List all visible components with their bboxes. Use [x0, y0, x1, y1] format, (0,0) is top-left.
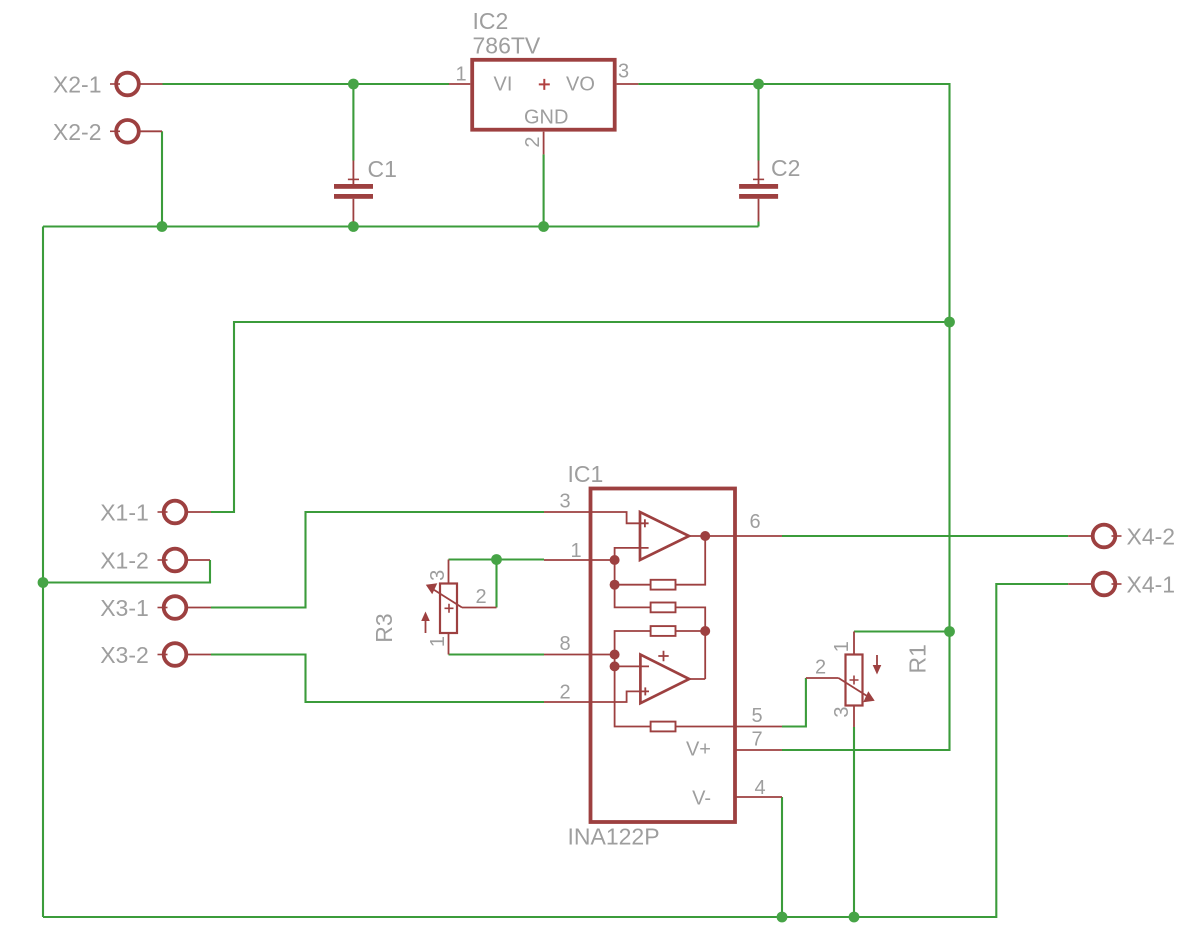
wire IC1 pin1 inner — [591, 560, 615, 585]
resistor Rg1 — [651, 603, 676, 613]
junction R1 pin1 at V+ vertical — [944, 626, 955, 637]
R1 wiper arrowhead — [863, 691, 875, 702]
svg-text:7: 7 — [751, 729, 762, 751]
wire Rfb1 to A1 output — [676, 536, 706, 585]
svg-text:1: 1 — [831, 641, 853, 652]
wire X3-1 to IC1 pin3 — [211, 512, 544, 608]
IC2 pin 2 stub — [543, 132, 545, 155]
svg-text:3: 3 — [618, 60, 629, 82]
wire C2 top branch — [757, 84, 759, 161]
svg-text:8: 8 — [559, 633, 570, 655]
wire left GND rail vertical — [42, 227, 44, 918]
R1 adjust arrow — [876, 655, 878, 668]
svg-text:1: 1 — [455, 63, 466, 85]
wire A2 output to node D — [689, 631, 705, 679]
svg-text:2: 2 — [559, 682, 570, 704]
R3 wiper pin 2 stub — [462, 607, 497, 609]
junction X1-1 net at V+ vertical — [944, 317, 955, 328]
wire IC1 pin8 inner — [591, 654, 615, 656]
svg-text:VO: VO — [566, 74, 595, 96]
R3 wiper arrowhead — [426, 583, 438, 594]
op-amp A2 noninverting input wire — [591, 691, 650, 702]
svg-text:X4-2: X4-2 — [1127, 524, 1176, 550]
wire R1 pin1 to V+ vertical — [854, 630, 950, 632]
svg-text:R1: R1 — [905, 644, 931, 673]
op-amp A1 noninverting input wire — [591, 512, 649, 523]
junction IC1 pin4 at bottom rail — [777, 912, 788, 923]
node A1 output junction — [700, 531, 710, 541]
wire B to Rfb1 — [615, 584, 651, 586]
connector X4-2 — [1068, 525, 1121, 548]
wire bottom GND rail to X4-1 — [43, 584, 1068, 917]
svg-text:X4-1: X4-1 — [1127, 572, 1176, 598]
op-amp A2 plus mark above — [658, 651, 668, 661]
connector X3-1 — [158, 596, 212, 619]
wire R1 pin3 down to bottom rail — [853, 727, 855, 917]
IC1 pin 2 stub — [544, 701, 589, 703]
IC1 pin 1 stub — [544, 559, 589, 561]
junction C1 top — [348, 79, 359, 90]
svg-text:X1-1: X1-1 — [100, 500, 149, 526]
wire IC1 pin6 to X4-2 — [782, 535, 1068, 537]
wire X1-1 to V+ vertical — [211, 322, 950, 512]
R1 pin 3 stub — [853, 706, 855, 728]
op-amp A1 triangle — [640, 512, 689, 560]
svg-text:2: 2 — [815, 657, 826, 679]
wire V+ net from IC2 VO to IC1 pin7 — [638, 84, 949, 750]
R1 pin 1 stub — [853, 632, 855, 655]
wire X2-2 down to GND rail — [161, 131, 163, 226]
wire B down to Rg1 — [615, 585, 651, 608]
wire Rg2 to node D — [676, 630, 706, 632]
svg-text:INA122P: INA122P — [568, 824, 660, 850]
capacitor C2 — [739, 161, 778, 222]
svg-text:3: 3 — [559, 491, 570, 513]
R3 adjust arrow — [425, 618, 427, 633]
node A1 inverting junction — [610, 555, 620, 565]
connector X2-1 — [110, 73, 163, 96]
svg-text:GND: GND — [524, 107, 568, 129]
svg-text:X2-2: X2-2 — [53, 119, 102, 145]
wire X2-1 to IC2 VI pin — [163, 83, 450, 85]
junction R3 wiper node — [491, 554, 502, 565]
svg-text:R3: R3 — [371, 613, 397, 642]
wire GND rail horizontal — [43, 225, 759, 227]
svg-text:3: 3 — [427, 570, 449, 581]
svg-text:6: 6 — [749, 511, 760, 533]
svg-text:X3-1: X3-1 — [100, 595, 149, 621]
node F junction — [610, 661, 620, 671]
R1 wiper arm — [839, 678, 872, 699]
svg-text:786TV: 786TV — [473, 33, 541, 59]
connector X1-1 — [158, 501, 212, 524]
wire IC1 pin5 to R1 wiper — [782, 678, 806, 727]
junction R1 pin3 at bottom rail — [849, 912, 860, 923]
R3 pin 1 stub — [448, 633, 450, 655]
op-amp A2 inverting input wire — [615, 665, 649, 667]
connector X4-1 — [1068, 573, 1121, 596]
R3 plus mark — [445, 604, 454, 613]
R3 pin 3 stub — [448, 560, 450, 584]
wire C1 bottom to GND rail — [352, 222, 354, 227]
resistor Rfb2 — [651, 722, 676, 732]
R1 wiper pin 2 stub — [806, 677, 839, 679]
voltage regulator IC2 body — [472, 60, 615, 130]
IC1 pin 3 stub — [544, 511, 589, 513]
wire C2 bottom to GND rail — [757, 222, 759, 227]
wire R3 bottom to IC1 pin8 — [449, 653, 545, 655]
svg-text:5: 5 — [751, 705, 762, 727]
op-amp IC1 box — [591, 489, 736, 823]
potentiometer R3 body — [440, 584, 457, 634]
wire X3-2 to IC1 pin2 — [211, 655, 544, 703]
node feedback junction B — [610, 580, 620, 590]
IC1 pin 5 stub — [737, 726, 783, 728]
connector X2-2 — [110, 120, 162, 143]
svg-text:1: 1 — [427, 636, 449, 647]
svg-text:C1: C1 — [368, 156, 397, 182]
svg-text:2: 2 — [522, 136, 544, 147]
svg-text:1: 1 — [570, 540, 581, 562]
wire X1-2 to left rail — [43, 560, 210, 583]
op-amp A1 inverting input wire — [615, 548, 649, 560]
capacitor C1 — [334, 161, 373, 222]
wire R3 wiper riser — [495, 560, 497, 608]
wire Rg2 left to node E — [615, 631, 651, 655]
junction IC2 GND at rail — [538, 221, 549, 232]
connector X1-2 — [158, 549, 211, 572]
svg-text:IC2: IC2 — [473, 8, 509, 34]
connector X3-2 — [158, 643, 212, 666]
svg-text:4: 4 — [754, 777, 765, 799]
IC1 pin 7 stub — [737, 749, 783, 751]
node E junction — [610, 650, 620, 660]
IC1 pin 4 stub — [737, 796, 783, 798]
junction C1 bottom at GND rail — [348, 221, 359, 232]
svg-text:V+: V+ — [686, 739, 711, 761]
wire F down to Rfb2 — [615, 666, 651, 726]
junction C2 top — [753, 79, 764, 90]
IC2 pin 1 stub — [449, 83, 470, 85]
IC2 pin 3 stub — [617, 83, 639, 85]
svg-text:V-: V- — [692, 788, 711, 810]
svg-text:X1-2: X1-2 — [100, 548, 149, 574]
op-amp A2 plus mark — [644, 687, 646, 695]
wire IC1 pin4 down to bottom rail — [781, 797, 783, 917]
svg-text:X2-1: X2-1 — [53, 72, 102, 98]
resistor Rg2 — [651, 626, 676, 636]
svg-text:C2: C2 — [771, 155, 800, 181]
IC1 pin 6 stub — [737, 535, 783, 537]
wire C1 top branch — [352, 84, 354, 161]
svg-text:3: 3 — [831, 706, 853, 717]
wire E to F — [614, 655, 616, 667]
R1 plus mark — [850, 676, 859, 685]
junction X1-2 at left rail — [38, 577, 49, 588]
wire Rg1 to node D — [676, 607, 706, 631]
wire IC2 GND pin down — [543, 154, 545, 226]
wire Rfb2 to pin5 — [676, 726, 737, 728]
op-amp A1 plus mark — [644, 519, 646, 527]
svg-text:IC1: IC1 — [568, 461, 604, 487]
R3 wiper arm — [430, 587, 463, 608]
potentiometer R1 body — [846, 655, 863, 706]
op-amp A2 triangle — [640, 655, 689, 704]
wire R3 top to IC1 pin1 — [449, 558, 545, 560]
node D junction — [700, 626, 710, 636]
svg-text:X3-2: X3-2 — [100, 642, 149, 668]
IC1 pin 8 stub — [544, 654, 589, 656]
wire A1 output to pin6 — [689, 535, 737, 537]
polarity + inside IC2 — [539, 79, 550, 90]
junction X2-2 at GND rail — [157, 221, 168, 232]
svg-text:VI: VI — [494, 74, 513, 96]
svg-text:2: 2 — [475, 586, 486, 608]
resistor Rfb1 — [651, 580, 676, 590]
